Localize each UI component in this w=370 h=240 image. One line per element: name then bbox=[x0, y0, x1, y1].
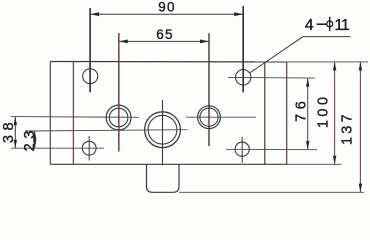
dimension 137 top arrow bbox=[359, 62, 362, 71]
centerline C bottom holes right segment bbox=[226, 148, 317, 150]
inner left vertical edge bbox=[72, 62, 74, 165]
centerline bottom-right hole vertical bbox=[241, 137, 243, 163]
hole bottom-left bbox=[82, 141, 96, 155]
dimension 100 top arrow bbox=[333, 62, 336, 71]
svg-text:100: 100 bbox=[316, 93, 332, 128]
dimension 38 bottom arrow bbox=[14, 140, 17, 149]
centerline A through left port circle bbox=[11, 116, 139, 119]
bottom tab bbox=[147, 164, 180, 192]
center circle inner bbox=[148, 115, 177, 144]
dimension 38 line bbox=[14, 117, 16, 149]
extension line right (through top-right hole) for dim 90 bbox=[242, 6, 244, 92]
inner right vertical edge bbox=[264, 62, 266, 164]
dimension 90 line bbox=[90, 13, 243, 15]
part top edge bbox=[50, 61, 287, 63]
dimension 23 bottom arrow bbox=[33, 140, 36, 149]
center circle outer bbox=[145, 112, 181, 148]
port circle right inner bbox=[200, 108, 218, 126]
dimension 38 top arrow bbox=[14, 117, 17, 126]
centerline C bottom holes left segment bbox=[11, 147, 104, 149]
dimension 23 line bbox=[34, 131, 36, 148]
svg-text:90: 90 bbox=[158, 0, 175, 15]
label 4-phi11: dash bbox=[317, 23, 327, 25]
svg-text:76: 76 bbox=[294, 97, 310, 122]
part left edge bbox=[49, 62, 51, 165]
dimension 65 right arrow bbox=[200, 40, 209, 44]
dimension 100 line bbox=[334, 62, 336, 164]
dimension 90 right arrow bbox=[234, 12, 243, 16]
port circle right outer bbox=[198, 106, 221, 129]
centerline right port circle horizontal bbox=[186, 116, 256, 118]
svg-text:38: 38 bbox=[1, 118, 17, 143]
svg-text:65: 65 bbox=[156, 27, 173, 42]
label leader underline bbox=[303, 36, 350, 38]
dimension 76 line bbox=[307, 78, 309, 150]
part right edge bbox=[286, 62, 288, 164]
centerline bottom-left hole vertical bbox=[88, 136, 90, 161]
dimension 23 top arrow bbox=[33, 131, 36, 140]
extension line: tab bottom extended right bbox=[179, 191, 364, 193]
extension line left (through top-left hole) for dim 90 bbox=[89, 8, 91, 92]
centerline center circle vertical bbox=[162, 100, 164, 164]
extension line: top edge extended right bbox=[287, 61, 368, 63]
svg-text:137: 137 bbox=[340, 111, 356, 145]
port circle left inner bbox=[109, 108, 128, 127]
extension line left (through left port circle) for dim 65 bbox=[118, 33, 120, 151]
dimension 100 bottom arrow bbox=[333, 156, 336, 165]
hole top-left bbox=[83, 69, 98, 84]
svg-text:11: 11 bbox=[334, 17, 350, 34]
centerline B through center circle bbox=[25, 130, 188, 131]
extension line: bottom edge extended right bbox=[287, 163, 342, 165]
dimension 76 bottom arrow bbox=[306, 141, 309, 150]
dimension 65 left arrow bbox=[119, 40, 128, 44]
dimension 90 left arrow bbox=[90, 12, 99, 16]
hole top-right bbox=[236, 70, 251, 85]
label 4-phi11: phi symbol loop bbox=[327, 21, 333, 27]
port circle left outer bbox=[106, 105, 131, 130]
dimension 137 line bbox=[359, 62, 361, 192]
svg-text:23: 23 bbox=[22, 126, 38, 151]
extension line right (through right port circle) for dim 65 bbox=[208, 33, 210, 146]
part bottom edge bbox=[50, 163, 287, 165]
hole bottom-right bbox=[235, 142, 249, 156]
dimension 76 top arrow bbox=[306, 78, 309, 87]
label 4-phi11: phi symbol bar bbox=[329, 17, 331, 31]
label leader diagonal to top-right hole bbox=[250, 37, 304, 73]
centerline top-right hole horizontal bbox=[228, 76, 315, 79]
svg-text:4: 4 bbox=[305, 17, 314, 34]
dimension 65 line bbox=[119, 40, 209, 42]
dimension 137 bottom arrow bbox=[359, 184, 362, 193]
